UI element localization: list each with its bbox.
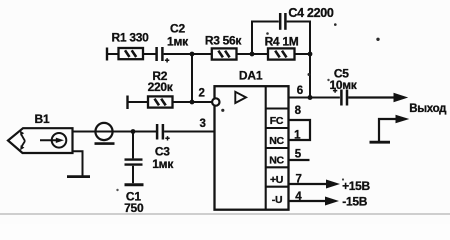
capacitor C5 <box>333 88 347 105</box>
svg-text:C2: C2 <box>170 21 185 35</box>
svg-text:+15В: +15В <box>342 179 370 193</box>
pin 7 supply wire <box>289 183 328 185</box>
wire R4 to output node <box>295 53 311 55</box>
resistor R2 <box>148 96 173 107</box>
input terminal of R1 <box>106 48 108 61</box>
output common riser wire <box>379 119 397 142</box>
svg-text:R1 330: R1 330 <box>112 30 150 44</box>
wire terminal to R1 <box>106 53 119 55</box>
node R3/R4/C4 junction <box>250 52 255 57</box>
svg-text:R4 1M: R4 1M <box>265 35 299 49</box>
svg-text:FC: FC <box>270 115 284 127</box>
pin 4 supply wire <box>289 200 327 202</box>
wire terminal to R2 <box>127 101 149 103</box>
label C1 750 <box>124 189 144 214</box>
microphone B1 element circle with arrow <box>40 133 66 148</box>
svg-text:+U: +U <box>270 174 283 186</box>
svg-text:NC: NC <box>269 135 284 147</box>
resistor R4 <box>268 48 295 59</box>
microphone B1 body <box>8 128 73 153</box>
resistor R1 <box>119 48 144 59</box>
output common arrowhead <box>396 115 410 124</box>
svg-text:1: 1 <box>294 129 301 141</box>
capacitor C3 <box>157 124 170 141</box>
microphone B1 sound-wave arrows <box>20 131 25 151</box>
svg-text:5: 5 <box>295 148 302 160</box>
capacitor C2 <box>157 47 170 63</box>
wire R1 to C2 <box>143 53 156 55</box>
node: input junction <box>131 129 136 134</box>
capacitor C4 <box>280 13 285 30</box>
label R2 220к <box>148 69 174 94</box>
label C2 1мк <box>167 21 189 48</box>
node R4/C4 junction <box>308 52 313 57</box>
wire C2 to node <box>164 53 192 55</box>
svg-text:750: 750 <box>124 201 144 215</box>
wire C1 to ground <box>132 166 134 183</box>
svg-text:NC: NC <box>269 155 284 167</box>
svg-text:3: 3 <box>199 118 205 130</box>
svg-text:8: 8 <box>295 105 302 117</box>
ground bar below C1 <box>125 183 144 186</box>
wire C4 branch up-left <box>252 22 279 55</box>
wire C1 branch <box>132 132 134 159</box>
wire vertical to inverting input row <box>191 54 193 102</box>
input terminal of R2 <box>126 96 128 110</box>
pin 2 inverting bubble <box>212 98 219 105</box>
wire R3 to node <box>237 53 269 55</box>
svg-text:1мк: 1мк <box>152 157 174 171</box>
scan specks <box>116 23 379 191</box>
svg-text:DA1: DA1 <box>239 69 263 83</box>
svg-text:4: 4 <box>295 191 302 203</box>
connector socket bar <box>95 142 115 145</box>
op-amp U DA1 outer box <box>215 86 289 210</box>
svg-text:B1: B1 <box>35 112 50 126</box>
pin 5 stub wire <box>289 159 310 161</box>
connector plug-socket circle <box>95 123 112 140</box>
label C5 10мк <box>329 66 357 91</box>
svg-text:10мк: 10мк <box>329 78 357 92</box>
svg-text:6: 6 <box>297 85 303 97</box>
node C2/R3 junction <box>190 52 195 57</box>
pin 6 output wire <box>289 97 340 99</box>
wire mic to connector to junction <box>73 131 157 133</box>
mic ground bar <box>67 175 90 178</box>
label C3 1мк <box>152 144 174 170</box>
svg-text:-U: -U <box>272 194 282 206</box>
node R2 junction <box>190 100 195 105</box>
op-amp DA1 inner divider <box>265 86 267 210</box>
svg-text:220к: 220к <box>148 80 174 94</box>
pin 7 arrowhead <box>326 180 340 189</box>
op-amp DA1 cell lines <box>266 109 289 187</box>
svg-text:-15В: -15В <box>342 194 367 208</box>
svg-text:1мк: 1мк <box>167 35 189 49</box>
svg-text:2: 2 <box>198 88 204 100</box>
output arrowhead <box>394 93 409 102</box>
pin 4 arrowhead <box>325 197 339 206</box>
mic ground wire <box>73 151 83 176</box>
wire pins 8-1 strap <box>289 120 311 140</box>
wire C4 branch down-right <box>287 22 310 98</box>
resistor R3 <box>212 48 237 59</box>
svg-text:C4 2200: C4 2200 <box>288 6 334 20</box>
svg-text:7: 7 <box>295 173 301 185</box>
op-amp DA1 triangle symbol <box>235 92 246 103</box>
wire C3 to pin 3 <box>164 131 214 133</box>
wire R2 to pin 2 <box>173 101 213 103</box>
node pin6/C4 junction <box>308 95 313 100</box>
page edge line (faint) <box>0 213 450 215</box>
capacitor C1 <box>125 160 143 165</box>
svg-text:R3 56к: R3 56к <box>205 34 243 48</box>
wire C5 to output arrow <box>348 96 395 98</box>
output common ground bar <box>370 141 391 144</box>
svg-text:Выход: Выход <box>409 103 447 115</box>
wire node to R3 <box>192 53 212 55</box>
